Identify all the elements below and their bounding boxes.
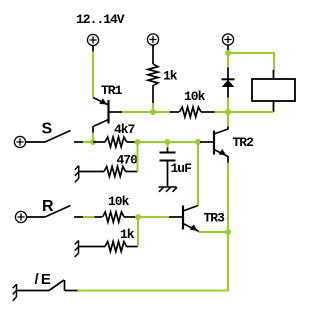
wire switch S to node	[83, 141, 93, 143]
wire node to TR2 base node	[168, 141, 199, 143]
transistor TR2 (NPN)	[200, 126, 228, 163]
switch R	[26, 206, 84, 218]
svg-text:12..14V: 12..14V	[76, 12, 125, 27]
node cap junction	[165, 139, 171, 145]
wire node down to /E row	[77, 232, 228, 291]
resistor 4k7	[93, 137, 138, 147]
relay coil K1	[252, 70, 295, 112]
wire 470 up to S row node	[137, 142, 139, 172]
resistor 470	[79, 167, 138, 177]
resistor 10k (top)	[170, 107, 215, 117]
wire node to relay top	[228, 53, 274, 71]
pin pad2 to R2	[152, 45, 154, 65]
ground chassis (capacitor)	[159, 187, 178, 192]
pin 1k bottom	[152, 85, 154, 104]
wire TR3 emitter to node	[199, 231, 229, 233]
wire node to diode cathode	[227, 53, 229, 68]
wire node to capacitor	[167, 142, 169, 148]
svg-text:4k7: 4k7	[114, 122, 135, 137]
node TR2 base / TR3 collector	[195, 139, 201, 145]
ground chassis (470)	[75, 166, 79, 183]
wire TR1 base to node	[122, 111, 153, 113]
svg-text:R: R	[42, 198, 54, 215]
node top-right junction	[225, 50, 231, 56]
terminal supply pad 3	[222, 34, 233, 45]
node diode/relay/10k/TR2 collector	[225, 109, 231, 115]
wire 1k up to R node	[137, 217, 139, 247]
resistor 1k (R row)	[79, 242, 139, 252]
wire diode anode to node	[227, 98, 229, 113]
svg-text:/E: /E	[35, 271, 54, 288]
wire 1k to node	[152, 103, 154, 112]
ground chassis (1k)	[75, 240, 79, 257]
wire relay bottom to node	[228, 111, 274, 113]
svg-text:S: S	[42, 121, 53, 138]
transistor TR3 (NPN)	[169, 206, 199, 232]
switch /E (closed)	[17, 280, 78, 291]
terminal pad S	[14, 136, 25, 147]
resistor 10k (R row)	[95, 212, 139, 222]
wire node to TR3 base	[138, 216, 169, 218]
wire S row node to node	[138, 141, 168, 143]
terminal +12V supply pad 1	[87, 34, 98, 45]
wire TR2 collector to node	[227, 112, 229, 127]
capacitor C1 1uF	[160, 148, 176, 188]
node S / TR1 collector / 4k7	[90, 139, 96, 145]
diode D1 (flyback, cathode up)	[222, 68, 235, 99]
pin of pad1	[92, 45, 94, 53]
svg-text:1k: 1k	[163, 69, 178, 84]
pin pad3	[227, 45, 229, 54]
svg-text:470: 470	[117, 153, 139, 168]
svg-text:TR3: TR3	[204, 211, 226, 226]
wire TR2 emitter down	[227, 163, 229, 233]
wire pad1 to TR1 emitter	[92, 52, 94, 98]
wire TR3 collector to TR2 base node	[197, 142, 199, 206]
svg-text:TR2: TR2	[233, 135, 255, 150]
node R row junction	[135, 214, 141, 220]
wire switch R to 10k	[83, 216, 95, 218]
wire TR1 collector to S node	[92, 133, 94, 143]
terminal pad R	[15, 211, 26, 222]
wire node to 10k	[153, 111, 171, 113]
transistor TR1 (PNP)	[93, 98, 122, 134]
switch S	[25, 131, 84, 143]
wire 10k to node	[215, 111, 229, 113]
svg-text:10k: 10k	[108, 194, 130, 209]
svg-text:1k: 1k	[120, 227, 135, 242]
svg-text:TR1: TR1	[101, 83, 123, 98]
node 4k7 / 470 / wire	[135, 139, 141, 145]
svg-text:1uF: 1uF	[171, 161, 193, 176]
ground chassis (/E)	[13, 284, 17, 301]
node base TR1 / 1k / 10k	[150, 109, 156, 115]
svg-text:10k: 10k	[184, 89, 206, 104]
terminal supply pad 2	[147, 34, 158, 45]
node emitters junction	[225, 229, 231, 235]
resistor 1k (top, vertical)	[148, 64, 158, 86]
